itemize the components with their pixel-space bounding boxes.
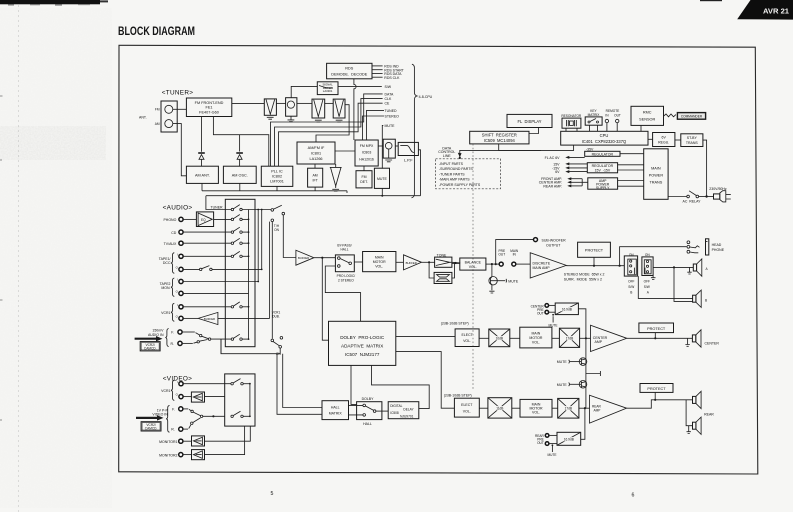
- front mute transistor: [489, 264, 519, 293]
- DOLBY PRO-LOGIC box: [329, 321, 396, 365]
- TUNED STEREO labels: [385, 109, 400, 119]
- svg-text:EQ: EQ: [201, 218, 206, 222]
- matrix switch tape1: [231, 251, 248, 257]
- svg-text:FL AC 6V: FL AC 6V: [545, 156, 561, 160]
- wire dolby rear out: [396, 352, 455, 409]
- AVR 21 banner: [737, 0, 793, 20]
- svg-text:MAIN: MAIN: [532, 331, 541, 335]
- video F jack: [179, 407, 183, 411]
- svg-text:REAR AMP.: REAR AMP.: [543, 184, 562, 188]
- svg-text:CAMCD.: CAMCD.: [145, 427, 158, 431]
- wire to speaker B: [674, 267, 693, 301]
- wire DATA to PLL: [271, 94, 383, 166]
- antenna terminal box: [155, 101, 177, 132]
- svg-text:4-8-CPU: 4-8-CPU: [419, 95, 433, 99]
- record bus 2: [261, 209, 263, 271]
- svg-text:MOTOR: MOTOR: [529, 336, 542, 340]
- FL DISPLAY box: [507, 114, 552, 127]
- wire discriminator to CF3: [297, 102, 312, 104]
- svg-text:17dB: 17dB: [565, 407, 572, 411]
- wire switch to delay: [376, 410, 388, 412]
- filter F5 triangle: [330, 167, 342, 191]
- wire trans to AC relay: [668, 196, 687, 198]
- wire TAPE2 out: [183, 292, 248, 294]
- monitor1 buffer: [183, 436, 205, 446]
- svg-text:FM: FM: [361, 175, 366, 179]
- wire monitor1 to matrix: [205, 426, 251, 441]
- svg-text:CD: CD: [171, 231, 177, 235]
- wire CLK to PLL: [275, 99, 383, 167]
- junction tone in: [428, 261, 430, 263]
- svg-text:11dB: 11dB: [496, 407, 503, 411]
- svg-text:(2dB-10dB STEP): (2dB-10dB STEP): [441, 322, 469, 326]
- wire mute box to bus: [381, 188, 383, 195]
- svg-text:MUTE: MUTE: [549, 323, 558, 327]
- svg-text:SUPPLY: SUPPLY: [596, 186, 610, 190]
- wire front-end out: [232, 102, 264, 104]
- svg-text:IC508: IC508: [390, 411, 399, 415]
- rear MAIN MOTOR VOL box: [520, 399, 552, 417]
- wire buffer2 to tone: [422, 261, 435, 263]
- svg-text:SUB-WOOFER: SUB-WOOFER: [542, 239, 567, 243]
- AC relay switch: [682, 191, 701, 204]
- stub AM ANT bottom: [201, 183, 203, 190]
- svg-text:CENTER: CENTER: [593, 336, 608, 340]
- 1V P-P VIDEO IN label: [136, 408, 168, 420]
- center ELECT VOL box: [455, 329, 479, 347]
- audio buffer 1: [296, 250, 314, 265]
- 150mV AUDIO IN label: [135, 329, 165, 342]
- wire TAPE1 in to matrix: [183, 255, 231, 257]
- wire TUNED: [367, 110, 385, 140]
- stub AM IFT bottom: [314, 187, 316, 191]
- svg-text:POWER: POWER: [649, 174, 664, 178]
- video R jack: [179, 427, 183, 431]
- wire IF to F5: [335, 164, 337, 167]
- svg-text:ANT.: ANT.: [139, 116, 147, 120]
- wire switch to main vol: [354, 261, 362, 263]
- svg-text:REGU.: REGU.: [658, 140, 669, 144]
- svg-text:CLK: CLK: [385, 97, 392, 101]
- rear mute arrow: [548, 444, 557, 456]
- TONE box bass: [435, 254, 452, 268]
- svg-text:AMP: AMP: [594, 409, 601, 413]
- stub PLL bottom: [276, 186, 278, 190]
- svg-text:VIDEO IN: VIDEO IN: [152, 413, 168, 417]
- record bus 1: [257, 209, 259, 283]
- CPU box: [561, 131, 648, 145]
- svg-text:L.P.F: L.P.F: [404, 158, 413, 162]
- TAPE1/DCC jacks: [159, 252, 183, 273]
- rear pre out jacks: [535, 434, 557, 446]
- svg-text:COMMANDER: COMMANDER: [681, 115, 703, 119]
- power rating label: [564, 273, 605, 282]
- VCR1 dub switch: [271, 337, 283, 356]
- wire 11dB to vol: [512, 407, 520, 409]
- svg-text:HALL: HALL: [363, 422, 372, 426]
- svg-text:BALANCE: BALANCE: [465, 260, 482, 264]
- svg-text:TUNER: TUNER: [211, 206, 224, 210]
- wire elect to 11dB: [479, 407, 488, 409]
- svg-text:DISCRETE: DISCRETE: [533, 261, 551, 265]
- MAIN MOTOR VOL box: [363, 252, 396, 272]
- sub-woofer output: [496, 238, 566, 265]
- diagram outer frame: [119, 45, 758, 474]
- junction tone out: [454, 262, 456, 264]
- svg-text:MUTE: MUTE: [377, 177, 388, 181]
- stub AM OSC bottom: [239, 183, 241, 190]
- svg-text:LA3301: LA3301: [323, 89, 333, 93]
- wire tone to balance: [452, 262, 460, 263]
- wire discriminator up to signal meter: [291, 86, 317, 97]
- BALANCE VOL box: [460, 258, 486, 270]
- audio input selector matrix box: [225, 199, 255, 346]
- VCO box: [383, 139, 395, 162]
- svg-text:MONITOR1: MONITOR1: [159, 440, 177, 444]
- wire dolby center out: [396, 335, 455, 337]
- svg-text:RDS CLK: RDS CLK: [384, 76, 400, 80]
- wire STEREO: [363, 116, 385, 140]
- scan black bar top-left: [0, 0, 100, 4]
- svg-text:BUFFER: BUFFER: [298, 256, 309, 260]
- svg-text:MUTE: MUTE: [557, 383, 568, 387]
- FM antenna jack: [165, 105, 173, 113]
- svg-text:DEMODE. DECODE: DEMODE. DECODE: [331, 72, 368, 76]
- wire video junction to matrix: [203, 415, 225, 417]
- center MAIN MOTOR VOL box: [520, 327, 552, 348]
- audio buffer 2: [404, 255, 422, 270]
- svg-text:AUDIO IN: AUDIO IN: [148, 333, 164, 337]
- wire balance out: [486, 263, 499, 265]
- ST-BY TRANS box: [681, 134, 703, 147]
- REMOTE IN OUT jacks: [605, 109, 621, 132]
- svg-text:FE407-G60: FE407-G60: [199, 111, 219, 115]
- video matrix switch 2: [231, 411, 250, 417]
- svg-text:15V -15V: 15V -15V: [595, 168, 611, 172]
- rear speaker ground: [687, 426, 691, 434]
- AM antenna jack: [165, 120, 173, 128]
- aux F switch: [182, 332, 211, 340]
- svg-text:B: B: [630, 291, 632, 295]
- REAR AMP: [590, 395, 627, 423]
- svg-text:R.: R.: [171, 342, 175, 346]
- wire CF1 to discriminator: [276, 102, 285, 104]
- aux brace: [165, 329, 168, 347]
- svg-text:VOL.: VOL.: [532, 340, 540, 344]
- svg-text:DUB.: DUB.: [272, 314, 280, 318]
- wire CD to matrix: [183, 231, 231, 233]
- svg-text:PHONO: PHONO: [163, 218, 176, 222]
- 11dB attenuator: [488, 398, 512, 418]
- svg-text:RMC: RMC: [643, 111, 652, 115]
- svg-text:IC509 MC14094: IC509 MC14094: [484, 138, 516, 143]
- svg-text:AM ANT.: AM ANT.: [195, 174, 210, 178]
- tbar: [586, 371, 601, 376]
- svg-text:PROTECT: PROTECT: [647, 327, 666, 331]
- svg-text:MAIN AMP: MAIN AMP: [533, 266, 551, 270]
- wire main in to amp: [516, 263, 530, 265]
- svg-text:-SURROUND PARTS: -SURROUND PARTS: [439, 167, 473, 171]
- svg-text:FL DISPLAY: FL DISPLAY: [517, 119, 541, 124]
- junction headphone: [619, 265, 621, 267]
- wire protect rear: [654, 392, 656, 399]
- PRE OUT jack: [498, 249, 505, 266]
- wire EQ to matrix: [214, 218, 232, 220]
- speaker A ground: [687, 267, 691, 274]
- svg-text:OFF: OFF: [644, 279, 650, 283]
- data control dashed box: [436, 159, 501, 189]
- svg-text:DATA: DATA: [385, 92, 394, 96]
- PLL IC box: [261, 166, 293, 186]
- rear ELECT VOL box: [454, 398, 479, 417]
- CENTER AMP: [591, 325, 627, 351]
- svg-text:10dB: 10dB: [496, 337, 503, 341]
- wire IF to AM IFT: [314, 164, 316, 168]
- DOLBY/HALL switch: [357, 397, 382, 426]
- svg-text:ELECT: ELECT: [461, 403, 473, 407]
- junction pre: [491, 263, 493, 265]
- svg-text:ELECT: ELECT: [461, 333, 473, 337]
- svg-text:1V P-P: 1V P-P: [157, 408, 169, 412]
- rear 16.9dB box: [557, 432, 581, 445]
- svg-text:HA12016: HA12016: [359, 157, 374, 161]
- wire TAPE2 in: [183, 281, 258, 283]
- wire relay B to speaker B: [638, 276, 692, 298]
- matrix switch phono: [231, 215, 248, 221]
- svg-text:TV/AUX: TV/AUX: [164, 242, 177, 246]
- AM/FM IF box: [297, 142, 335, 164]
- svg-text:<AUDIO>: <AUDIO>: [163, 205, 193, 212]
- SHIFT REGISTER box: [470, 131, 529, 144]
- wire hall matrix to switch: [349, 405, 363, 415]
- EQ amp box: [196, 212, 213, 227]
- wire RDS IND: [372, 65, 383, 67]
- VCR1 record buffer: [183, 312, 269, 324]
- rear pre out tap: [581, 408, 585, 439]
- RMC SENSOR box: [631, 106, 664, 131]
- rear speaker 2: [693, 417, 702, 434]
- svg-text:REGULATOR: REGULATOR: [592, 164, 614, 168]
- wire AM ant to AM ANT box: [173, 124, 187, 176]
- svg-text:IC802: IC802: [272, 174, 282, 178]
- wire center amp out: [627, 337, 693, 339]
- svg-text:PHONE: PHONE: [712, 248, 725, 252]
- svg-text:FM: FM: [155, 108, 160, 112]
- svg-text:6V: 6V: [662, 135, 667, 139]
- svg-text:OUT: OUT: [614, 114, 621, 118]
- wire dolby to delay loop: [372, 365, 430, 408]
- audio aux F jack: [178, 330, 182, 334]
- svg-text:VOL.: VOL.: [463, 339, 471, 343]
- svg-text:-POWER SUPPLY PARTS: -POWER SUPPLY PARTS: [439, 183, 481, 187]
- video F switch: [183, 409, 203, 418]
- svg-text:DIGITAL: DIGITAL: [390, 404, 402, 408]
- scan black sliver top-right: [700, 0, 722, 1]
- svg-text:VOL.: VOL.: [463, 409, 471, 413]
- RDS demodulator decoder box: [327, 63, 372, 79]
- svg-text:B: B: [705, 298, 707, 302]
- svg-text:STEREO: STEREO: [385, 115, 400, 119]
- wire FL display to shift register: [529, 128, 539, 134]
- wire phono to EQ: [183, 218, 196, 220]
- svg-text:CE: CE: [385, 102, 391, 106]
- tape1 out switch: [183, 266, 262, 271]
- matrix switch vcr1: [231, 302, 248, 308]
- svg-text:RDS: RDS: [345, 67, 353, 71]
- VCR2/CAMCD box video: [141, 422, 161, 431]
- 17dB attenuator: [559, 328, 579, 347]
- matrix select bus: [248, 210, 250, 341]
- svg-text:IC801: IC801: [311, 151, 321, 155]
- center speaker: [692, 330, 719, 347]
- MONITOR2 jack: [159, 453, 183, 458]
- svg-text:HALL: HALL: [341, 248, 349, 252]
- record bus 3 vcr: [269, 222, 271, 319]
- svg-text:MOTOR: MOTOR: [373, 260, 386, 264]
- svg-text:VCR1: VCR1: [161, 389, 170, 393]
- L.P.F box: [398, 142, 418, 162]
- svg-text:MAIN: MAIN: [375, 255, 384, 259]
- TONE box loudness: [434, 272, 452, 283]
- svg-text:TUNED: TUNED: [385, 109, 398, 113]
- junction speakers: [673, 266, 675, 268]
- svg-text:REGULATOR: REGULATOR: [592, 152, 614, 156]
- svg-text:AVR 21: AVR 21: [763, 6, 790, 15]
- tuner output bus: [206, 195, 421, 197]
- svg-text:MUTE: MUTE: [508, 279, 519, 283]
- speaker relay B: [624, 253, 637, 295]
- COMMANDER: [664, 113, 706, 120]
- speaker B: [693, 290, 708, 307]
- wire vol to rear 17dB: [552, 407, 558, 409]
- center mute arrow: [549, 314, 558, 327]
- junction mute bus: [381, 195, 383, 197]
- T/H ON switch: [271, 205, 285, 232]
- wire aux to matrix: [211, 338, 231, 340]
- speaker relay A: [642, 253, 656, 295]
- HALL MATRIX box: [322, 401, 349, 420]
- svg-text:TRANS: TRANS: [649, 181, 662, 185]
- svg-text:IC401 CXP82320-337Q: IC401 CXP82320-337Q: [582, 139, 626, 144]
- stub F5 bottom: [346, 191, 348, 193]
- wire amp ps to trans: [618, 180, 644, 182]
- svg-text:AM/FM IF: AM/FM IF: [308, 146, 325, 150]
- svg-text:VCR1: VCR1: [161, 311, 170, 315]
- svg-text:RESONATOR: RESONATOR: [561, 114, 582, 118]
- svg-text:AM: AM: [155, 122, 160, 126]
- svg-text:REMOTE: REMOTE: [606, 109, 620, 113]
- wire dub to hall matrix: [283, 354, 322, 408]
- svg-text:CENTER: CENTER: [705, 341, 720, 345]
- junction buffer1: [321, 257, 323, 259]
- svg-text:BUFFER: BUFFER: [204, 317, 215, 321]
- svg-text:16.9dB: 16.9dB: [564, 438, 574, 442]
- wire amp out: [566, 265, 624, 267]
- video matrix box: [225, 374, 255, 426]
- wire CF3 to CF4: [325, 102, 334, 104]
- svg-text:MON.: MON.: [161, 286, 170, 290]
- svg-text:ST-BY: ST-BY: [687, 136, 698, 140]
- DATA CONTROL LINE label: [438, 146, 461, 159]
- wire vol to buffer2: [396, 261, 404, 263]
- svg-text:S/W: S/W: [644, 285, 650, 289]
- svg-text:-INPUT PARTS: -INPUT PARTS: [439, 162, 464, 166]
- TAPE2 MON jacks: [160, 278, 183, 297]
- wire vol to 17dB: [552, 337, 560, 339]
- svg-text:MATRIX: MATRIX: [329, 412, 343, 416]
- center PROTECT box: [639, 323, 674, 333]
- svg-text:R.: R.: [171, 428, 175, 432]
- svg-text:BUFFER: BUFFER: [406, 261, 417, 265]
- svg-text:FE1: FE1: [206, 106, 213, 110]
- dashed data control vertical line: [472, 144, 474, 390]
- svg-text:MUTE: MUTE: [548, 453, 557, 457]
- scan artifact left vertical line: [18, 0, 20, 512]
- VCR1 DUB label: [272, 310, 281, 318]
- center pre out jacks: [531, 304, 556, 316]
- svg-text:IC803: IC803: [362, 150, 371, 154]
- svg-text:5: 5: [271, 491, 274, 497]
- svg-text:16.9dB: 16.9dB: [562, 308, 572, 312]
- tuner secondary bus: [202, 190, 347, 192]
- wire dub output: [221, 339, 280, 354]
- svg-text:IC507 NJM2177: IC507 NJM2177: [345, 352, 380, 357]
- wire VCO to LPF: [395, 145, 398, 147]
- rear PROTECT box: [640, 384, 673, 393]
- PHONO jack: [179, 217, 183, 221]
- svg-text:ON: ON: [645, 253, 650, 257]
- wire RDS START: [372, 69, 383, 71]
- svg-text:DELAY: DELAY: [403, 408, 414, 412]
- wire front-end to varactor D1: [201, 117, 203, 152]
- svg-text:AM OSC.: AM OSC.: [232, 174, 248, 178]
- varactor D1: [198, 152, 205, 166]
- ceramic filter CF4: [333, 99, 345, 122]
- DISCRETE MAIN AMP: [530, 253, 566, 278]
- video R switch: [183, 418, 201, 429]
- svg-text:6: 6: [632, 493, 635, 499]
- wire to headphone: [620, 247, 687, 266]
- speaker A: [693, 259, 708, 276]
- mute transistor rear: [557, 381, 587, 389]
- wire buffer1 out: [314, 257, 336, 259]
- scan noise left margin: [0, 8, 112, 508]
- svg-text:(2dB-10dB STEP): (2dB-10dB STEP): [444, 393, 472, 397]
- MONITOR1 jack: [159, 439, 183, 444]
- rear 17dB attenuator: [558, 398, 579, 418]
- svg-text:6V: 6V: [555, 170, 560, 174]
- varactor D2: [236, 152, 243, 166]
- svg-text:HALL: HALL: [331, 405, 340, 409]
- svg-text:REAR: REAR: [704, 413, 714, 417]
- svg-text:17dB: 17dB: [566, 337, 573, 341]
- wire FM ant to front-end: [173, 108, 187, 110]
- svg-text:2 STEREO: 2 STEREO: [338, 278, 354, 282]
- matrix switch cd: [231, 227, 248, 233]
- wire IF to MPX: [335, 150, 355, 152]
- wire relay to plug junction: [699, 196, 714, 198]
- wire LPF down to tuner bus: [418, 150, 420, 196]
- wire regulator to trans 2: [618, 169, 644, 171]
- wire S/W from signal meter: [338, 86, 382, 88]
- svg-text:STEREO MODE 65W x 2: STEREO MODE 65W x 2: [564, 273, 605, 277]
- wire regulator to trans: [618, 164, 644, 166]
- svg-text:VOL.: VOL.: [469, 265, 477, 269]
- AC plug: [714, 191, 731, 202]
- wire dub to hall matrix 2: [277, 354, 322, 415]
- wire CPU data to control line note: [460, 150, 541, 157]
- wire MPX to FM DET: [363, 166, 365, 171]
